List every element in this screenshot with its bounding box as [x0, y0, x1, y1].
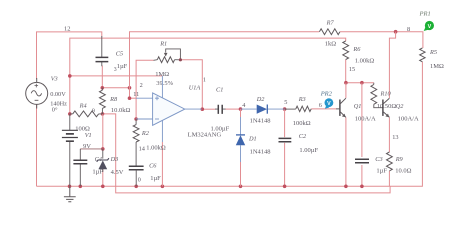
- wire node 9 jog from R8 bottom to lower return bus: [103, 114, 391, 193]
- svg-text:10.0kΩ: 10.0kΩ: [111, 107, 131, 114]
- svg-text:1kΩ: 1kΩ: [325, 41, 337, 48]
- resistor R9: [387, 152, 393, 171]
- svg-text:5: 5: [284, 99, 287, 106]
- junction node 4: [239, 107, 243, 111]
- svg-text:1.00µF: 1.00µF: [211, 126, 230, 133]
- wire op-amp output to C1: [202, 108, 215, 110]
- op-amp output stub: [185, 108, 202, 110]
- resistor R10: [371, 85, 377, 105]
- svg-text:R4: R4: [79, 103, 87, 110]
- capacitor C3: [355, 159, 369, 163]
- svg-text:R7: R7: [326, 19, 335, 26]
- transistor Q2: [382, 100, 384, 116]
- svg-text:1.00kΩ: 1.00kΩ: [146, 144, 166, 151]
- junction R1 wiper-right: [179, 58, 182, 61]
- junction C3 top: [360, 81, 364, 85]
- svg-text:R9: R9: [395, 156, 404, 163]
- svg-text:PR2: PR2: [320, 91, 333, 98]
- zener diode D3: [102, 149, 104, 159]
- wire C3 bottom to ground bus: [361, 165, 363, 186]
- ground symbol: [64, 186, 76, 202]
- svg-text:1.00kΩ: 1.00kΩ: [355, 58, 375, 65]
- svg-text:D1: D1: [248, 136, 257, 143]
- svg-text:1: 1: [203, 77, 206, 84]
- svg-text:D2: D2: [256, 96, 266, 103]
- svg-text:Q2: Q2: [396, 103, 405, 110]
- junction C4 ground: [79, 185, 83, 189]
- svg-text:R3: R3: [298, 96, 306, 103]
- wire C2 bottom to ground bus: [284, 143, 286, 187]
- svg-text:R8: R8: [109, 96, 118, 103]
- capacitor C4: [80, 148, 103, 150]
- svg-text:Q1: Q1: [354, 103, 362, 110]
- svg-text:V1: V1: [85, 132, 92, 139]
- svg-text:PR1: PR1: [419, 10, 431, 17]
- junction R8 top: [101, 86, 105, 90]
- probe PR2: [325, 105, 329, 108]
- ac source V3: [26, 82, 48, 104]
- svg-text:R5: R5: [429, 49, 437, 56]
- svg-text:1N4148: 1N4148: [250, 148, 271, 155]
- svg-text:39.5%: 39.5%: [156, 80, 173, 87]
- svg-text:1MΩ: 1MΩ: [430, 63, 444, 70]
- svg-text:100A/A: 100A/A: [398, 115, 419, 122]
- junction R2/C6 ground: [134, 185, 138, 189]
- junction + input: [128, 96, 132, 100]
- diode D2: [241, 108, 285, 110]
- junction R8 bottom node 9: [101, 112, 105, 116]
- wire op-amp V- to ground bus: [161, 142, 163, 186]
- svg-text:1µF: 1µF: [117, 63, 128, 70]
- svg-text:1N4148: 1N4148: [250, 118, 271, 125]
- svg-text:12: 12: [64, 25, 71, 32]
- svg-text:V: V: [327, 101, 331, 107]
- wire R1 right / feedback to op-amp output: [180, 60, 202, 109]
- resistor R8: [100, 90, 106, 108]
- wire Q1 emitter to ground bus (net 13): [345, 117, 347, 186]
- junction node 8: [394, 30, 398, 34]
- svg-text:C6: C6: [149, 162, 157, 169]
- junction op-amp V- ground: [161, 185, 165, 189]
- wire C4/D3 branch: [102, 114, 104, 149]
- wire R9 bottom to ground bus: [388, 171, 390, 186]
- resistor R5: [420, 48, 425, 62]
- svg-text:V3: V3: [51, 75, 58, 82]
- wire V3 bottom to ground bus: [36, 105, 38, 187]
- svg-text:11: 11: [133, 91, 139, 98]
- svg-text:13: 13: [392, 134, 398, 141]
- svg-text:0°: 0°: [52, 107, 58, 114]
- svg-text:4.5V: 4.5V: [111, 169, 124, 176]
- wire node8 jog down to Q2 collector: [389, 32, 395, 98]
- svg-text:C5: C5: [116, 50, 123, 57]
- svg-text:0.00V: 0.00V: [50, 91, 66, 98]
- wire R8 top to op-amp + input column: [102, 87, 129, 89]
- junction D1 ground: [239, 185, 243, 189]
- svg-text:1.00µF: 1.00µF: [299, 147, 318, 154]
- wire D3 bottom to ground bus: [102, 169, 104, 186]
- junction Q1 collector: [344, 81, 348, 85]
- wire Q1 collector vertical: [345, 83, 347, 98]
- resistor R2: [133, 125, 139, 142]
- probe PR1: [424, 27, 429, 31]
- svg-text:C1: C1: [216, 87, 223, 94]
- svg-text:1µF: 1µF: [92, 169, 103, 176]
- resistor R4: [73, 111, 99, 117]
- capacitor C5: [101, 36, 103, 66]
- svg-text:2: 2: [140, 82, 143, 89]
- wire 9V bus to op-amp V+ pin (y=75.9): [70, 75, 163, 77]
- svg-text:C3: C3: [375, 156, 382, 163]
- svg-text:0: 0: [138, 177, 141, 183]
- wire node5 down to C2: [284, 109, 286, 137]
- op-amp U1A: [153, 93, 185, 125]
- wire C1 right to node 4: [225, 108, 241, 110]
- svg-text:R2: R2: [141, 130, 150, 137]
- junction 9V bus: [68, 74, 72, 78]
- capacitor C6: [129, 166, 144, 170]
- resistor R6: [343, 41, 349, 60]
- transistor Q1: [339, 100, 341, 116]
- wire V3 top to C5 (net 12): [37, 32, 102, 79]
- wire C5 bottom to R8 top (net 2 branch): [101, 66, 103, 88]
- junction C4 branch: [101, 147, 105, 151]
- wire R3 right to Q1 base (net 6): [311, 108, 336, 110]
- wire net2 vertical to top line and + input: [130, 32, 320, 99]
- junction V1 ground: [68, 185, 72, 189]
- wire C3 drop: [361, 83, 363, 157]
- svg-text:U1A: U1A: [189, 84, 201, 91]
- diode D1: [240, 117, 242, 162]
- junction net2 corner: [128, 86, 132, 90]
- resistor R7: [319, 29, 340, 35]
- op-amp input stubs: [136, 98, 153, 119]
- svg-text:8: 8: [407, 26, 410, 33]
- svg-text:9: 9: [92, 109, 95, 115]
- junction - input: [134, 117, 138, 121]
- wire 9V rail from V1/R4 node up and across top (y=38.1): [70, 38, 346, 114]
- svg-text:6: 6: [319, 102, 322, 109]
- resistor R3: [296, 106, 311, 111]
- capacitor C1: [215, 108, 226, 110]
- capacitor C2: [279, 138, 292, 141]
- battery V1: [69, 114, 71, 130]
- wire R6 bottom to Q1 collector rail (net 15): [345, 60, 347, 83]
- svg-text:14: 14: [139, 146, 146, 153]
- svg-text:1µF: 1µF: [376, 168, 387, 175]
- svg-text:100A/A: 100A/A: [355, 115, 376, 122]
- svg-text:V: V: [428, 24, 432, 30]
- svg-text:1µF: 1µF: [150, 175, 161, 182]
- wire R1 left to inverting input column (net at -): [136, 60, 153, 119]
- wire node4 to D1 and D1 to ground: [240, 109, 242, 117]
- svg-text:15: 15: [349, 66, 355, 73]
- wire collector rail to R10 top: [346, 82, 374, 84]
- potentiometer R1: [157, 57, 174, 63]
- junction output node: [201, 107, 205, 111]
- svg-text:10.0Ω: 10.0Ω: [395, 168, 411, 175]
- op-amp power pins: [161, 76, 163, 142]
- svg-text:C2: C2: [299, 133, 307, 140]
- junction C2 ground: [283, 185, 287, 189]
- wire R7 right to node 8, PR1 corner and R5: [340, 32, 423, 48]
- svg-text:D3: D3: [110, 156, 119, 163]
- wire Q2 emitter to R9 (net 13): [388, 117, 390, 152]
- svg-text:R1: R1: [159, 40, 167, 47]
- wire R5 bottom down right edge to ground bus: [37, 62, 423, 187]
- junction node 5: [283, 107, 287, 111]
- svg-text:10.50Ω: 10.50Ω: [377, 103, 397, 110]
- svg-text:R6: R6: [352, 46, 361, 53]
- svg-text:R10: R10: [380, 90, 392, 97]
- junction R4 left / V1 top: [68, 112, 72, 116]
- svg-text:100kΩ: 100kΩ: [293, 120, 311, 127]
